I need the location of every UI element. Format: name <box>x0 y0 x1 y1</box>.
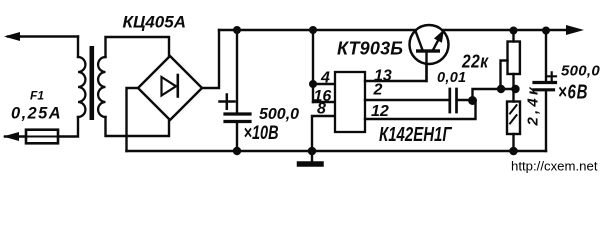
node dot pin4 <box>309 80 317 88</box>
node dot A after capacitor <box>468 96 477 105</box>
capacitor C2 bottom lead <box>545 91 547 151</box>
transistor emitter arrow <box>434 30 444 43</box>
top rail right segment <box>444 29 570 31</box>
capacitor C2 plates <box>534 81 556 84</box>
svg-text:×10В: ×10В <box>244 121 279 144</box>
capacitor C1 plates <box>225 112 250 115</box>
wire input bus from rail to IC <box>312 30 314 102</box>
transistor collector slant <box>415 31 422 51</box>
svg-text:0,01: 0,01 <box>437 70 466 86</box>
node dot R2 rail <box>509 147 518 156</box>
bottom rail <box>127 150 547 152</box>
capacitor C2 plus sign <box>548 72 557 80</box>
node dot D divider <box>511 85 519 93</box>
wire pin 13 to transistor base <box>365 62 427 81</box>
arrow mains top <box>4 32 20 41</box>
wire mains lead down to primary winding <box>77 37 79 58</box>
fuse F1 wire <box>5 135 26 137</box>
svg-text:F1: F1 <box>30 89 44 103</box>
svg-text:2: 2 <box>373 82 383 99</box>
transistor Q1 КТ903Б circle <box>410 25 449 64</box>
ground symbol <box>311 151 313 162</box>
wire pin 4 <box>313 83 335 85</box>
diode cathode bar <box>177 75 180 97</box>
svg-text:8: 8 <box>317 101 326 118</box>
svg-text:0,25А: 0,25А <box>11 105 62 123</box>
transistor emitter slant <box>433 31 443 50</box>
wire secondary top lead to bridge <box>106 37 170 57</box>
bridge rectifier VD1 diamond <box>138 56 202 120</box>
resistor R2 2,4к body <box>507 102 520 135</box>
transformer T1 secondary winding <box>98 57 105 117</box>
wire pin 2 to capacitor <box>365 99 448 101</box>
node dot C divider <box>497 85 505 93</box>
capacitor C1 bottom lead <box>236 123 238 151</box>
svg-text:×6В: ×6В <box>558 80 588 103</box>
svg-text:КЦ405А: КЦ405А <box>123 13 186 32</box>
arrow mains bottom <box>3 132 19 141</box>
svg-text:КТ903Б: КТ903Б <box>337 39 403 59</box>
top rail left segment <box>219 29 415 31</box>
resistor R2 bottom lead <box>512 134 514 151</box>
wire node A up and right to divider node <box>473 89 517 100</box>
wire capacitor to node A <box>458 99 472 101</box>
transformer T1 primary winding <box>78 57 85 117</box>
capacitor C3 0,01 plates <box>450 89 457 112</box>
svg-text:12: 12 <box>371 103 389 120</box>
wire bridge minus to bottom rail <box>127 88 139 151</box>
transistor base lead <box>425 53 427 82</box>
wire pin 12 riser <box>365 102 476 119</box>
node dot ground rail <box>308 147 317 156</box>
wire pin 8 to ground <box>312 116 335 151</box>
svg-text:500,0: 500,0 <box>561 63 600 80</box>
resistor R1 22к body <box>508 42 520 75</box>
resistor R1 trimmer tap <box>501 61 508 90</box>
capacitor C2 top lead <box>545 30 547 81</box>
node dot C1 bottom <box>233 147 241 155</box>
fuse F1 body <box>26 130 58 144</box>
wire fuse to primary <box>26 136 78 138</box>
capacitor C1 plus sign <box>220 95 235 109</box>
op-amp U1 К142ЕН1Г body <box>335 72 365 132</box>
diode triangle inside bridge <box>162 77 177 96</box>
arrow output plus <box>566 25 584 35</box>
node dot C2 rail <box>542 27 550 35</box>
svg-text:22к: 22к <box>461 51 489 72</box>
resistor R2 top lead <box>512 89 514 102</box>
node dot R1 rail <box>510 27 518 35</box>
wire secondary bottom lead to bridge <box>106 117 170 136</box>
resistor R2 power marks <box>510 105 517 123</box>
wire pin 16 <box>313 101 335 103</box>
wire primary bottom lead <box>58 117 78 137</box>
wire bridge plus up to top rail <box>202 30 219 88</box>
resistor R1 top lead <box>512 30 514 42</box>
transistor base bar <box>416 49 440 52</box>
wire top-left mains lead <box>8 35 78 37</box>
capacitor C1 top lead <box>236 30 238 113</box>
svg-text:http://cxem.net: http://cxem.net <box>511 159 598 174</box>
node dot C1 top <box>233 26 241 34</box>
resistor R1 bottom lead <box>512 74 514 89</box>
svg-text:4: 4 <box>320 70 330 87</box>
transformer T1 core <box>90 46 95 120</box>
node dot bus rail <box>309 26 317 34</box>
svg-text:К142ЕН1Г: К142ЕН1Г <box>379 123 453 146</box>
